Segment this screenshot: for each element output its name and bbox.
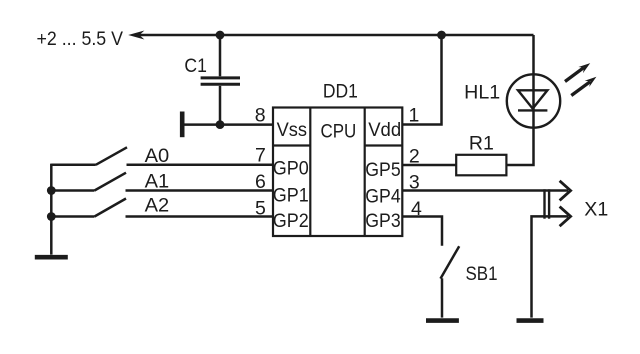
svg-text:Vss: Vss — [277, 119, 308, 141]
svg-text:GP0: GP0 — [273, 158, 309, 180]
svg-text:A0: A0 — [145, 145, 170, 167]
svg-text:HL1: HL1 — [464, 82, 500, 104]
svg-text:3: 3 — [409, 172, 420, 194]
svg-text:DD1: DD1 — [323, 80, 358, 102]
svg-text:SB1: SB1 — [466, 263, 498, 285]
svg-text:C1: C1 — [184, 55, 207, 77]
svg-text:5: 5 — [255, 198, 266, 220]
svg-text:GP2: GP2 — [273, 210, 309, 232]
svg-text:R1: R1 — [469, 133, 494, 155]
svg-text:X1: X1 — [584, 198, 608, 220]
svg-text:4: 4 — [411, 198, 422, 220]
svg-text:2: 2 — [409, 145, 420, 167]
svg-text:8: 8 — [255, 105, 266, 127]
svg-text:GP1: GP1 — [273, 185, 309, 207]
svg-text:GP3: GP3 — [365, 210, 400, 232]
svg-text:GP4: GP4 — [365, 186, 401, 208]
svg-text:CPU: CPU — [321, 121, 357, 143]
svg-text:6: 6 — [255, 171, 266, 193]
svg-text:GP5: GP5 — [365, 159, 401, 181]
svg-text:+2 ... 5.5 V: +2 ... 5.5 V — [37, 28, 124, 50]
svg-text:A2: A2 — [145, 194, 170, 216]
svg-text:1: 1 — [408, 105, 419, 127]
svg-text:7: 7 — [255, 145, 266, 167]
svg-text:A1: A1 — [145, 170, 170, 192]
svg-text:Vdd: Vdd — [368, 119, 401, 141]
